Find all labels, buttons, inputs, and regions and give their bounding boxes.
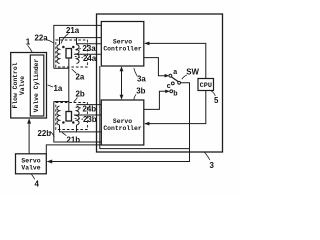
leader 1a	[48, 85, 53, 87]
svg-text:Servo: Servo	[21, 157, 40, 164]
valve cylinder box 1a	[30, 55, 44, 116]
top sensor terminal dots	[62, 46, 65, 49]
svg-text:22a: 22a	[35, 34, 49, 43]
wire: bottom sensor w1b to controller	[54, 102, 102, 143]
leader SW	[182, 75, 187, 79]
common pole circle	[178, 81, 181, 84]
svg-text:SW: SW	[186, 67, 199, 76]
wire: bottom sensor top stub	[54, 101, 69, 103]
svg-text:c: c	[167, 83, 171, 90]
svg-text:3: 3	[210, 161, 215, 170]
leader 22a	[46, 40, 54, 44]
leader 21a	[61, 34, 69, 44]
bottom sensor dashed housing 2b	[56, 103, 88, 130]
svg-text:23a: 23a	[83, 44, 97, 53]
svg-text:Controller: Controller	[103, 46, 142, 53]
leader 3	[205, 152, 210, 160]
wire 24b	[77, 104, 102, 106]
svg-text:2b: 2b	[76, 90, 85, 99]
arrowhead into flow control valve	[27, 118, 31, 123]
wire: top sensor w1 to controller	[54, 25, 102, 68]
top sensor left coil	[57, 45, 60, 64]
svg-text:3b: 3b	[136, 87, 145, 96]
leader 24b dashes	[76, 107, 83, 108]
leader 2b	[74, 98, 78, 103]
sensor rod link	[68, 58, 70, 112]
arrowhead into contact a	[165, 74, 170, 78]
svg-text:1: 1	[26, 38, 31, 47]
bottom sensor terminal dots	[62, 121, 65, 124]
svg-text:Valve: Valve	[19, 76, 26, 95]
wire: servo controller 1 output riser to junction	[100, 66, 190, 149]
contact b circle	[170, 90, 173, 93]
leader lines	[28, 34, 216, 180]
double arrow head down	[120, 95, 124, 100]
wire 24a	[74, 53, 101, 55]
leader 1	[28, 45, 33, 52]
wire: top sensor coil jumper w2	[60, 38, 102, 45]
top sensor dashed housing 2a	[56, 40, 88, 67]
arrowhead into servo controller 1	[144, 42, 149, 46]
leader 5	[211, 91, 215, 96]
svg-text:1a: 1a	[54, 84, 63, 93]
wire: top sensor bottom stub	[54, 67, 69, 69]
arrowhead into servo valve	[47, 160, 53, 164]
controller unit box 3	[97, 14, 223, 152]
leader 22b	[50, 131, 55, 137]
svg-text:24b: 24b	[83, 104, 97, 113]
svg-text:Controller: Controller	[103, 125, 142, 132]
svg-text:2a: 2a	[76, 73, 85, 82]
leader 3a	[134, 68, 137, 76]
wire: servo controller 2 to contact b	[144, 91, 166, 109]
svg-text:Servo: Servo	[113, 38, 132, 45]
svg-text:a: a	[173, 69, 177, 76]
svg-text:22b: 22b	[38, 129, 52, 138]
svg-text:21a: 21a	[66, 26, 80, 35]
contact c circle	[171, 82, 174, 85]
svg-text:Valve: Valve	[21, 164, 40, 171]
svg-text:5: 5	[214, 96, 219, 105]
svg-text:Valve Cylinder: Valve Cylinder	[33, 58, 40, 112]
svg-text:CPU: CPU	[200, 82, 212, 90]
bottom sensor left coil	[57, 106, 60, 125]
wire: switch common down to junction and servo valve	[48, 83, 190, 162]
servo controller U2 box	[101, 100, 144, 145]
interconnect arrow between controllers 3a 3b	[121, 68, 123, 98]
switch arm	[172, 77, 179, 82]
wire 23b	[74, 114, 101, 116]
svg-text:3a: 3a	[137, 75, 146, 84]
contact a circle	[169, 74, 172, 77]
svg-text:23b: 23b	[83, 115, 97, 124]
leader 23a dashes	[76, 48, 83, 50]
wire: servo controller 1 to contact a	[144, 58, 166, 76]
servo valve box 4	[16, 154, 47, 174]
leader 2a	[72, 69, 77, 73]
svg-text:21b: 21b	[67, 136, 81, 145]
flow control valve box 1	[11, 53, 47, 119]
bottom sensor core 22b	[66, 112, 72, 122]
wire 23a	[77, 43, 102, 45]
CPU box	[198, 79, 214, 91]
leader 23b dashes	[75, 117, 83, 120]
wire: bottom coil jumper w2b	[60, 125, 102, 132]
svg-text:4: 4	[35, 180, 40, 189]
wire: bottom coil branch	[76, 125, 78, 132]
wire: servo valve to flow control valve	[28, 120, 30, 154]
servo controller U1 box	[101, 22, 144, 67]
leader 21b	[62, 133, 66, 136]
wire: CPU to servo controller 2	[145, 91, 206, 124]
leader 24a dashes	[75, 56, 83, 58]
arrowhead into servo controller 2	[144, 122, 149, 126]
svg-text:Flow Control: Flow Control	[12, 62, 19, 108]
svg-text:24a: 24a	[83, 54, 97, 63]
svg-text:Servo: Servo	[113, 118, 132, 125]
svg-text:b: b	[173, 90, 177, 97]
leader 3b	[134, 94, 136, 99]
top sensor right coil	[77, 45, 80, 64]
wire: coil branch	[76, 38, 78, 45]
wire: servo valve top to controller 2 bottom	[46, 145, 101, 154]
leader 4	[31, 174, 35, 179]
wire: CPU to servo controller 1	[145, 43, 206, 78]
arrowhead into contact b	[165, 90, 170, 94]
double arrow head up	[120, 66, 124, 71]
bottom sensor right coil	[77, 106, 80, 125]
switch SW	[169, 74, 181, 92]
top sensor core 22a	[66, 49, 72, 59]
